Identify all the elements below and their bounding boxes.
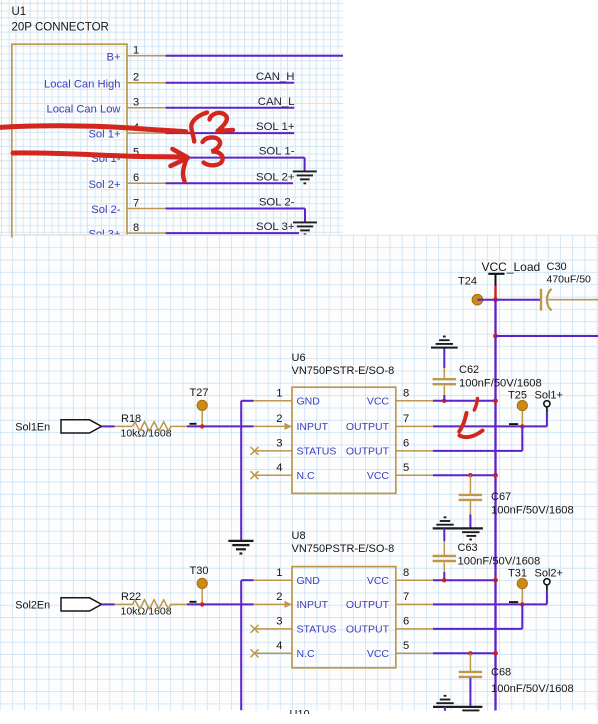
ground for SOL 1- [293,170,317,172]
svg-text:C62: C62 [459,364,479,376]
svg-text:2: 2 [133,72,139,84]
U6 pin 4 [254,474,293,476]
svg-text:3: 3 [276,438,282,450]
svg-text:T24: T24 [458,275,477,287]
capacitor C68 [469,653,471,671]
svg-text:6: 6 [403,616,409,628]
testpoint T31 stem [521,588,523,605]
wire SOL 2- vertical to ground [304,209,306,223]
svg-text:T25: T25 [508,389,527,401]
svg-text:OUTPUT: OUTPUT [346,599,390,611]
U8 pin 2 [254,603,293,605]
svg-text:U6: U6 [292,352,306,364]
wire rail branch right [496,335,598,337]
wire C30 right [548,299,598,301]
main VCC_Load vertical rail [494,300,496,711]
svg-text:1: 1 [133,45,139,57]
top schematic grid area [0,0,343,235]
svg-text:3: 3 [133,97,139,109]
svg-text:INPUT: INPUT [297,599,329,611]
svg-text:R22: R22 [121,591,141,603]
U1 pin 6 [127,182,166,184]
svg-text:VCC: VCC [367,470,390,482]
U8 pin1 ground vertical [240,580,242,710]
U8 pin 1 [254,579,293,581]
svg-text:8: 8 [403,388,409,400]
svg-text:C30: C30 [547,261,567,273]
svg-text:Local Can Low: Local Can Low [46,103,121,115]
svg-text:SOL 1-: SOL 1- [259,146,295,158]
wire SOL 1- vertical to ground [304,158,306,172]
wire U8 pin1 to ground [241,579,253,581]
bottom schematic grid area [0,235,598,711]
wire CAN_L [166,107,295,109]
capacitor C62 [443,368,445,379]
svg-text:8: 8 [133,222,139,234]
wire U8 pin8 to rail [433,579,496,581]
junction U8 pin7 node [520,602,524,606]
svg-text:VCC: VCC [367,648,390,660]
svg-text:1: 1 [276,567,282,579]
ground above C62 [443,348,445,368]
junction U8 pin8 cap branch [442,578,446,582]
svg-text:20P CONNECTOR: 20P CONNECTOR [12,21,109,33]
net flag Sol2+ node [544,579,550,585]
svg-text:VCC_Load: VCC_Load [482,260,541,274]
svg-text:VN750PSTR-E/SO-8: VN750PSTR-E/SO-8 [292,543,395,555]
op-amp U8 body [292,567,396,668]
net flag Sol1+ node [544,401,550,407]
wire Sol2+ flag down [546,591,548,605]
U8 pin 2 input arrow [285,601,292,608]
svg-text:100nF/50V/1608: 100nF/50V/1608 [458,556,541,568]
wire resistor to U8 pin2 [187,603,254,605]
junction U6 pin5 rail [493,473,498,478]
svg-text:N.C: N.C [297,648,316,660]
svg-text:6: 6 [403,438,409,450]
U6 pin 3 no-connect cross [251,447,259,455]
bottom ground stem [444,707,446,711]
wire U6 pin8 to rail [433,400,496,402]
capacitor C30 [540,289,542,311]
junction U6 pin7 node [520,424,524,428]
wire U6 pin7 output [433,425,547,427]
svg-text:GND: GND [297,575,321,587]
svg-text:OUTPUT: OUTPUT [346,421,390,433]
capacitor C67 [469,475,471,494]
red annotation arrow head [171,149,189,166]
testpoint T27 stem [201,410,203,427]
svg-text:STATUS: STATUS [297,624,337,636]
wire pin1 B+ net [166,55,343,57]
U6 pin 1 [254,400,293,402]
svg-text:R18: R18 [121,413,141,425]
bottom white crop strip [0,714,598,724]
junction U6 pin8 cap branch [442,399,446,403]
red annotation digit 3 [203,137,223,165]
testpoint T30 [197,578,207,588]
svg-text:STATUS: STATUS [297,446,337,458]
wire U6 pin6 output [433,450,522,452]
U6 pin 8 [396,400,433,402]
wire U8 pin6 to pin7 vertical [521,604,523,629]
bottom ground bar below [462,709,479,711]
compile marker dash near T30 [190,601,197,603]
svg-text:3: 3 [276,616,282,628]
U6 pin 6 [396,450,433,452]
svg-text:10kΩ/1608: 10kΩ/1608 [121,428,172,440]
compile marker dash near T25 [509,423,518,425]
ground C63 (bars above) [436,524,453,526]
wire SOL 1+ [166,132,295,134]
wire Sol1En to resistor [102,425,115,427]
svg-text:5: 5 [403,640,409,652]
wire C68 to ground [469,678,471,707]
svg-text:10kΩ/1608: 10kΩ/1608 [121,606,172,618]
svg-text:Sol 2-: Sol 2- [91,204,120,216]
U1 pin 7 [127,208,166,210]
junction U8 pin8 rail [493,578,498,583]
svg-text:C63: C63 [458,542,478,554]
svg-text:2: 2 [276,413,282,425]
U1 pin 4 [127,132,166,134]
connector U1 body [12,44,127,235]
svg-text:T27: T27 [190,387,209,399]
svg-text:4: 4 [276,640,282,652]
wire VCC_Load to C30 [477,299,540,301]
op-amp U6 body [292,387,396,493]
junction U6 pin5 cap branch [468,473,472,477]
bottom shared ground bar [433,706,482,708]
U8 pin 3 no-connect cross [251,625,259,633]
svg-text:N.C: N.C [297,470,316,482]
svg-text:Sol1+: Sol1+ [535,389,563,401]
svg-text:Sol2+: Sol2+ [535,567,563,579]
testpoint T25 stem [521,410,523,427]
capacitor C63 [443,541,445,555]
svg-text:8: 8 [403,567,409,579]
wire CAN_H [166,82,295,84]
svg-text:C67: C67 [491,491,511,503]
svg-text:VCC: VCC [367,575,390,587]
red annotation digit 2 [210,113,234,131]
svg-text:OUTPUT: OUTPUT [346,446,390,458]
U8 pin 6 [396,628,433,630]
svg-text:INPUT: INPUT [297,421,329,433]
svg-text:VCC: VCC [367,396,390,408]
wire U6 pin1 to ground [241,400,253,402]
svg-text:SOL 2+: SOL 2+ [256,171,295,183]
U8 pin 3 [254,628,293,630]
wire Sol1+ flag down [546,413,548,427]
ground U6 pin1 [228,540,253,542]
wire ground to C63 [443,528,445,541]
wire SOL 3+ [166,232,299,234]
testpoint T27 [197,400,207,410]
U8 pin 4 [254,652,293,654]
svg-text:100nF/50V/1608: 100nF/50V/1608 [491,683,574,695]
power port VCC_Load red pin [494,286,496,299]
svg-text:Sol2En: Sol2En [15,599,50,611]
svg-text:SOL 2-: SOL 2- [259,197,295,209]
junction U8 pin5 cap branch [468,651,472,655]
shared ground bar [433,527,483,529]
svg-text:VN750PSTR-E/SO-8: VN750PSTR-E/SO-8 [292,365,395,377]
U6 pin 5 [396,474,433,476]
ground C67 (bars below) [462,531,479,533]
junction rail branch [493,334,498,339]
port Sol2En [61,598,102,611]
junction U8 pin5 rail [493,651,498,656]
svg-text:7: 7 [403,591,409,603]
svg-text:Sol1En: Sol1En [15,421,50,433]
U8 pin 8 [396,579,433,581]
testpoint T24 [472,294,483,305]
wire SOL 2+ [166,182,293,184]
wire Sol2En to resistor [102,603,115,605]
svg-text:T30: T30 [190,565,209,577]
U1 pin 5 [127,157,166,159]
wire SOL 2- [166,208,305,210]
junction T30 node [200,602,204,606]
svg-text:U8: U8 [292,530,306,542]
U1 pin 8 [127,232,166,234]
compile marker dash near T31 [509,601,518,603]
wire U8 pin6 output [433,628,522,630]
resistor R18 [115,425,133,427]
U8 pin 5 [396,652,433,654]
U6 pin 3 [254,450,293,452]
svg-text:C68: C68 [491,666,511,678]
svg-text:5: 5 [403,462,409,474]
red annotation angle bracket [191,113,207,142]
junction T27 node [200,424,204,428]
junction VCC_Load node [493,297,498,302]
wire U8 pin7 output [433,603,547,605]
red annotation stroke over Sol 1+ [0,126,186,132]
testpoint T30 stem [201,588,203,605]
svg-text:4: 4 [276,462,282,474]
svg-text:GND: GND [297,396,321,408]
U6 pin 2 input arrow [285,423,292,430]
U8 pin 7 [396,603,433,605]
U1 body lower cut stub [11,235,13,238]
svg-text:7: 7 [403,413,409,425]
power port VCC_Load bar symbol [488,273,504,275]
wire U6 pin5 to rail [433,474,496,476]
wire C67 to ground [469,501,471,515]
testpoint T31 [517,579,527,589]
svg-text:SOL 1+: SOL 1+ [256,121,295,133]
red annotation arrow tail [183,159,186,181]
svg-text:CAN_L: CAN_L [258,96,295,108]
svg-text:1: 1 [276,388,282,400]
svg-text:7: 7 [133,197,139,209]
U8 pin 4 no-connect cross [251,649,259,657]
net flag Sol2+ stem [546,585,548,591]
svg-text:6: 6 [133,172,139,184]
U6 pin 4 no-connect cross [251,471,259,479]
compile marker dash near T27 [190,423,197,425]
svg-text:B+: B+ [107,51,121,63]
svg-text:2: 2 [276,591,282,603]
red annotation tick mark [474,399,477,411]
wire U6 pin6 to pin7 vertical [521,426,523,451]
U1 pin 2 [127,82,166,84]
red annotation stroke over Sol 1- [13,153,182,157]
wire SOL 1- [166,157,305,159]
svg-text:100nF/50V/1608: 100nF/50V/1608 [459,378,542,390]
svg-text:OUTPUT: OUTPUT [346,624,390,636]
U6 pin 2 [254,425,293,427]
ground for SOL 2- [293,221,317,223]
port Sol1En [61,420,102,433]
svg-text:U1: U1 [12,6,27,18]
U1 pin 1 [127,55,166,57]
svg-text:SOL 3+: SOL 3+ [256,221,295,233]
svg-text:CAN_H: CAN_H [256,71,295,83]
bottom ground bars above [436,702,453,704]
svg-text:Sol 2+: Sol 2+ [88,179,120,191]
testpoint T25 [517,401,527,411]
net flag Sol1+ stem [546,407,548,413]
wire resistor to U6 pin2 [187,425,254,427]
svg-text:T31: T31 [508,567,527,579]
svg-text:Sol 1+: Sol 1+ [88,129,120,141]
svg-text:470uF/50: 470uF/50 [547,273,592,285]
resistor R22 [115,603,133,605]
svg-text:100nF/50V/1608: 100nF/50V/1608 [491,505,574,517]
wire U8 pin5 to rail [433,652,496,654]
U1 pin 3 [127,107,166,109]
junction U6 pin8 rail [493,398,498,403]
svg-text:Local Can High: Local Can High [44,78,121,90]
wire U6 pin1 ground vertical [240,401,242,541]
U6 pin 7 [396,425,433,427]
